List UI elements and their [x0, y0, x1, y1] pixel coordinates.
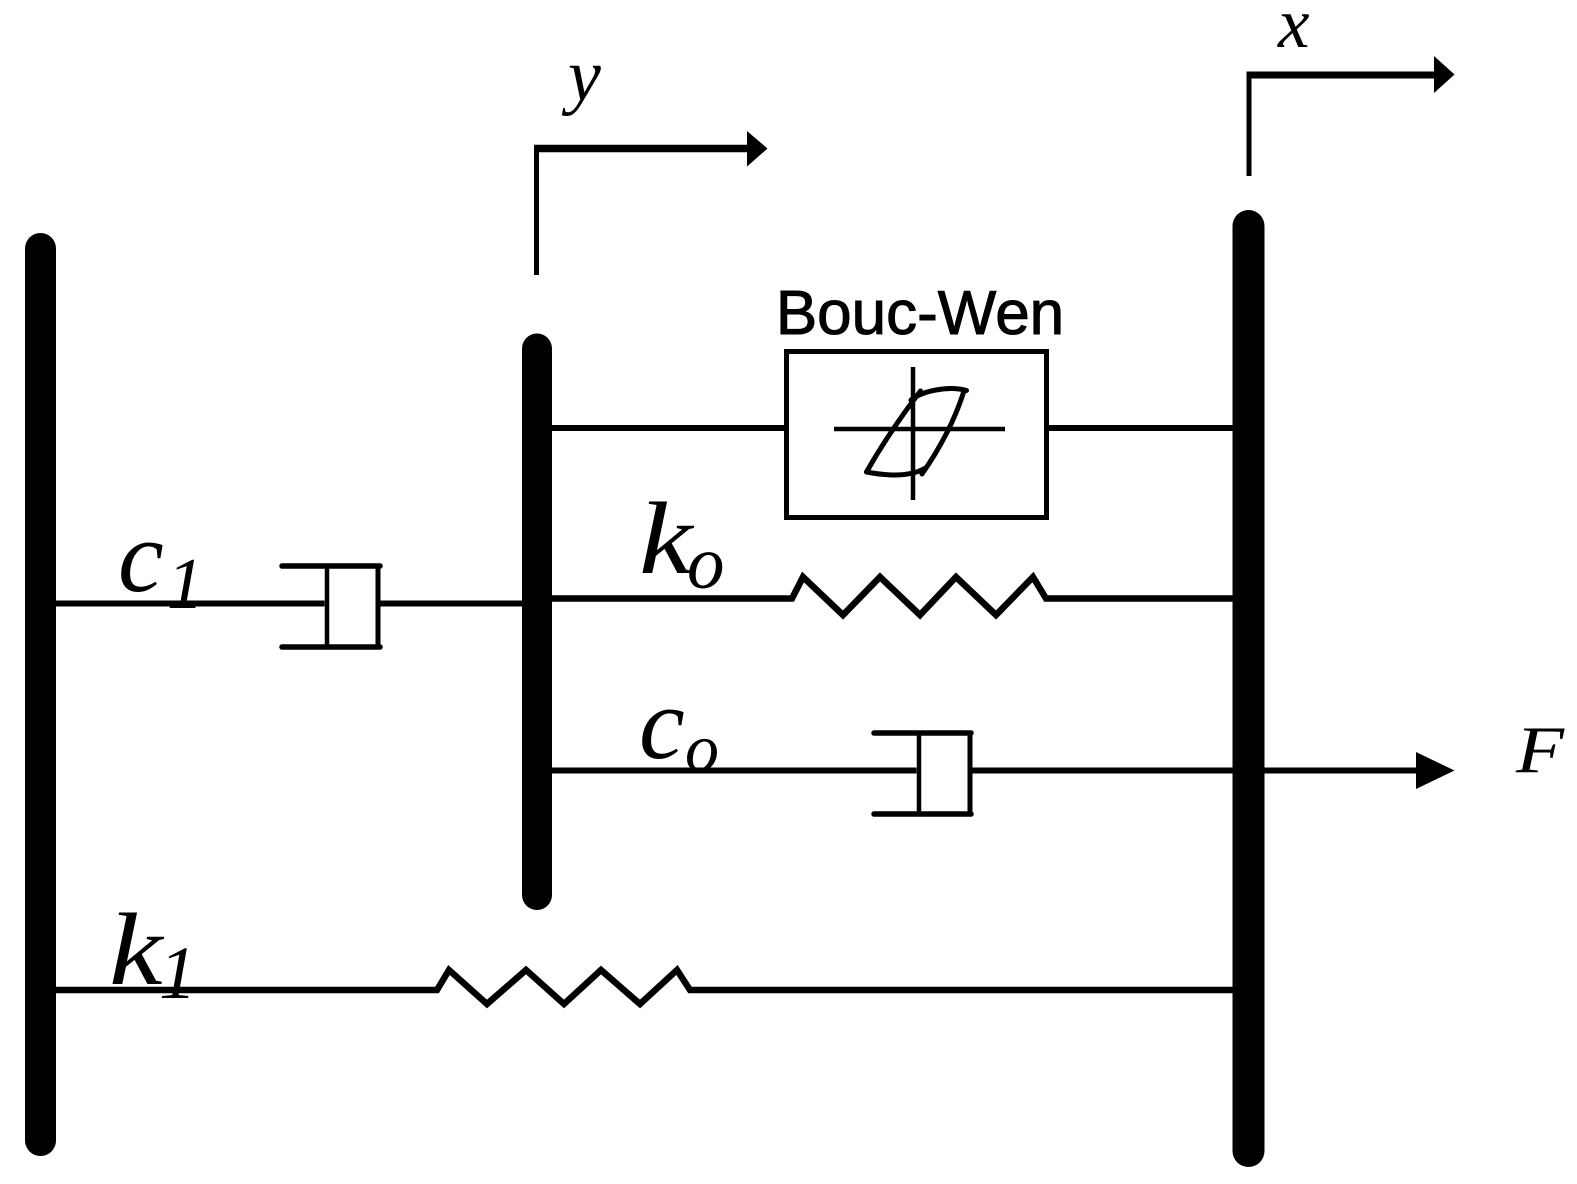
y axis arrowhead [747, 131, 768, 167]
svg-text:F: F [1515, 713, 1565, 787]
force arrowhead [1416, 752, 1455, 789]
svg-text:Bouc-Wen: Bouc-Wen [776, 279, 1064, 348]
svg-text:y: y [561, 35, 601, 117]
y axis arrow shaft [534, 145, 748, 153]
wire: damper c1 to mass plate [380, 601, 522, 607]
svg-text:1: 1 [159, 932, 197, 1015]
wire: mass plate to Bouc-Wen box [552, 425, 784, 431]
svg-text:o: o [687, 522, 725, 605]
svg-text:c: c [639, 667, 685, 781]
damper co piston [917, 733, 922, 814]
hysteresis loop top branch [911, 389, 967, 400]
damper c1 cylinder bottom plate [282, 644, 380, 650]
piston rod plate (node x) [1233, 226, 1265, 1151]
damper co cylinder end wall [968, 731, 973, 817]
damper c1 cylinder end wall [376, 564, 381, 650]
x axis arrow shaft [1247, 72, 1437, 79]
damper c1 cylinder top plate [282, 563, 380, 569]
damper c1 piston [325, 566, 330, 647]
hysteresis horizontal axis [834, 427, 1005, 432]
hysteresis vertical axis [911, 367, 916, 500]
svg-text:x: x [1277, 0, 1310, 63]
damper co rod (mass plate to piston) [552, 768, 917, 774]
damper co cylinder top plate [874, 730, 971, 736]
x axis arrowhead [1434, 56, 1455, 93]
hysteresis loop left branch [867, 391, 921, 472]
Bouc-Wen element box [787, 352, 1047, 518]
hysteresis loop bottom branch [867, 468, 926, 475]
internal mass plate (node y) [522, 349, 552, 896]
wire: Bouc-Wen box to x plate [1049, 425, 1233, 431]
spring k1 [56, 970, 1233, 1004]
svg-text:c: c [118, 500, 164, 614]
wire: damper co through x plate to force arrow [971, 768, 1417, 774]
svg-text:o: o [685, 710, 719, 786]
y axis reference line [534, 149, 539, 276]
fixed frame left wall [25, 249, 56, 1141]
hysteresis loop right branch [922, 393, 964, 475]
damper c1 rod (left wall to piston) [56, 601, 325, 607]
spring ko [552, 577, 1233, 615]
damper co cylinder bottom plate [874, 811, 971, 817]
x axis reference line [1247, 75, 1252, 176]
svg-text:1: 1 [167, 543, 204, 624]
